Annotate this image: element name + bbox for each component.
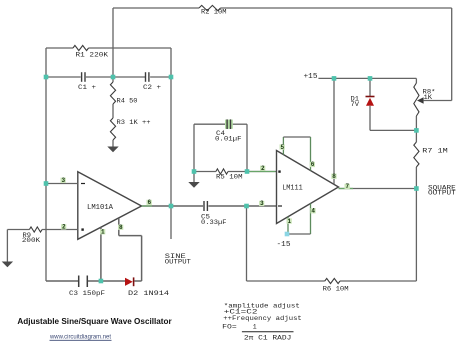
pin number 8 of U2 bbox=[331, 174, 336, 179]
resistor R7 1M bbox=[414, 142, 448, 167]
pin number 1 of U2 bbox=[287, 218, 292, 223]
wire U2 output to square node bbox=[339, 188, 417, 190]
svg-text:8: 8 bbox=[332, 173, 336, 180]
ground at R9 left end bbox=[2, 230, 13, 268]
junction node A top column bbox=[111, 75, 116, 80]
resistor R9 200K bbox=[22, 227, 42, 244]
svg-text:LM101A: LM101A bbox=[87, 204, 114, 212]
wire C1 C2 horizontal at y77 bbox=[46, 76, 171, 78]
junction square output node bbox=[414, 186, 419, 191]
resistor R4 50 bbox=[110, 82, 137, 105]
junction cyan at U2 pin1 corner bbox=[285, 232, 290, 237]
pin number 2 of U1 bbox=[61, 224, 66, 229]
potentiometer R8 1K amplitude adjust bbox=[414, 83, 452, 116]
resistor R5 10M bbox=[216, 169, 243, 181]
svg-text:R7 1M: R7 1M bbox=[422, 147, 448, 154]
svg-text:200K: 200K bbox=[22, 237, 40, 244]
square output label bbox=[428, 184, 456, 196]
svg-text:C1 +: C1 + bbox=[78, 84, 96, 91]
resistor R2 10M in top rail bbox=[199, 5, 227, 15]
svg-text:R1 220K: R1 220K bbox=[76, 51, 109, 58]
wire U1 output sine line bbox=[142, 205, 277, 207]
svg-text:1: 1 bbox=[101, 229, 105, 236]
positive supply +15 rail bbox=[304, 73, 417, 81]
resistor R1 220K bbox=[73, 45, 108, 58]
pin number 6 of U2 bbox=[310, 162, 315, 167]
green highlight segment at U2 pin 2 wire bbox=[249, 171, 276, 173]
svg-text:++Frequency adjust: ++Frequency adjust bbox=[223, 315, 302, 322]
square node column right side bbox=[415, 78, 417, 281]
svg-text:OUTPUT: OUTPUT bbox=[428, 190, 456, 197]
pin number 3 of U2 bbox=[259, 201, 264, 206]
svg-text:4: 4 bbox=[311, 208, 315, 215]
wire right box edge / sine node column bbox=[170, 48, 172, 239]
green highlight at U2 output bbox=[339, 188, 354, 190]
ground under C4 R5 node bbox=[188, 172, 199, 188]
sine output label bbox=[165, 253, 192, 265]
pin number 2 of U2 bbox=[260, 166, 265, 171]
wien network box top wire bbox=[46, 47, 171, 49]
svg-text:LM111: LM111 bbox=[282, 185, 303, 193]
svg-text:+15: +15 bbox=[304, 73, 318, 81]
wire feedback loop to square column via R6 bbox=[247, 206, 417, 281]
wire U1 inverting input pin 3 bbox=[46, 183, 78, 185]
diode D1 7V zener branch bbox=[351, 78, 417, 130]
wire U2 balance pins 5 6 strap bbox=[283, 137, 310, 171]
svg-text:8: 8 bbox=[119, 224, 123, 231]
resistor R3 1K frequency adjust bbox=[110, 118, 150, 140]
capacitor C1 bbox=[78, 72, 96, 91]
junction D1 R8 R7 node bbox=[414, 128, 419, 133]
svg-text:6: 6 bbox=[148, 199, 152, 206]
junction D1 top tap bbox=[368, 76, 373, 81]
svg-text:1: 1 bbox=[253, 323, 257, 330]
svg-text:2π C1 RADJ: 2π C1 RADJ bbox=[244, 335, 292, 342]
capacitor C2 bbox=[143, 72, 161, 91]
formula FO equals one over 2 pi C1 RADJ bbox=[222, 323, 293, 341]
wire U1 non-inverting input pin 2 from R9 bbox=[7, 229, 77, 231]
wire U1 pin 8 jog down bbox=[119, 218, 142, 281]
junction C4 right R5 node bbox=[245, 169, 250, 174]
pin number 3 of U1 bbox=[61, 178, 66, 183]
wire left box edge bbox=[45, 48, 47, 281]
svg-text:FO=: FO= bbox=[222, 323, 237, 330]
svg-text:2: 2 bbox=[62, 224, 66, 231]
capacitor C4 loop bbox=[194, 124, 247, 171]
junction U2 input node C5 bbox=[244, 204, 249, 209]
svg-text:7V: 7V bbox=[351, 101, 360, 108]
svg-text:R2 10M: R2 10M bbox=[201, 8, 227, 15]
wire R5 line to U2 pin 2 bbox=[194, 171, 277, 173]
pin number 4 of U2 bbox=[310, 208, 315, 213]
svg-text:5: 5 bbox=[281, 144, 285, 151]
link www.circuitdiagram.net bbox=[49, 334, 111, 341]
svg-text:R3 1K ++: R3 1K ++ bbox=[117, 119, 151, 126]
svg-text:7: 7 bbox=[346, 183, 350, 190]
wire bottom clamp rail with C3 and D2 bbox=[46, 280, 142, 282]
svg-text:3: 3 bbox=[62, 177, 66, 184]
pin number 1 of U1 bbox=[100, 229, 105, 234]
wire top feedback rail from node A to R8 wiper column bbox=[113, 8, 452, 101]
capacitor C3 150pF bbox=[69, 276, 105, 298]
wire U1 pin 1 drop to clamp rail bbox=[100, 227, 102, 281]
pin number 6 of U1 bbox=[147, 200, 152, 205]
ground under R3 bbox=[107, 147, 118, 153]
svg-text:Adjustable Sine/Square Wave Os: Adjustable Sine/Square Wave Oscillator bbox=[17, 316, 172, 326]
svg-text:0.01µF: 0.01µF bbox=[215, 136, 242, 143]
wire U2 pins 1 4 to minus 15 bbox=[288, 204, 311, 235]
svg-text:R5 10M: R5 10M bbox=[216, 174, 243, 181]
notes amplitude frequency adjust bbox=[223, 302, 302, 322]
svg-text:0.33µF: 0.33µF bbox=[201, 219, 227, 226]
wire R4 R3 column stubs bbox=[112, 77, 114, 147]
junction wien left node bbox=[44, 75, 49, 80]
pin number 7 of U2 bbox=[345, 184, 350, 189]
junction wien right node bbox=[169, 75, 174, 80]
capacitor C5 0.33uF bbox=[201, 201, 227, 226]
junction U1 inverting input node bbox=[44, 181, 49, 186]
op-amp U1 LM101A bbox=[78, 172, 142, 240]
resistor R6 10M bbox=[323, 278, 349, 292]
svg-text:C3 150pF: C3 150pF bbox=[69, 290, 105, 297]
junction U1 pin1 clamp rail bbox=[99, 279, 104, 284]
junction pin8 supply tap bbox=[332, 76, 337, 81]
svg-text:R6 10M: R6 10M bbox=[323, 285, 349, 292]
wire U2 pin 8 supply column from +15 rail bbox=[333, 78, 335, 184]
svg-text:D2 1N914: D2 1N914 bbox=[128, 290, 169, 297]
comparator U2 LM111 bbox=[277, 151, 339, 224]
diode D2 1N914 bbox=[125, 277, 169, 297]
svg-text:6: 6 bbox=[311, 161, 315, 168]
svg-text:-15: -15 bbox=[277, 241, 291, 249]
svg-text:1: 1 bbox=[288, 218, 292, 225]
pin number 8 of U1 bbox=[118, 225, 123, 230]
svg-text:1K: 1K bbox=[424, 94, 433, 101]
svg-text:R4 50: R4 50 bbox=[117, 98, 138, 105]
pin number 5 of U2 bbox=[280, 144, 285, 149]
svg-text:OUTPUT: OUTPUT bbox=[165, 258, 192, 265]
svg-text:3: 3 bbox=[260, 200, 264, 207]
junction C4 R5 ground node bbox=[192, 169, 197, 174]
capacitor C4 0.01uF bbox=[215, 119, 242, 142]
svg-text:C2 +: C2 + bbox=[143, 84, 161, 91]
svg-text:www.circuitdiagram.net: www.circuitdiagram.net bbox=[49, 334, 111, 341]
junction sine node bbox=[169, 204, 174, 209]
